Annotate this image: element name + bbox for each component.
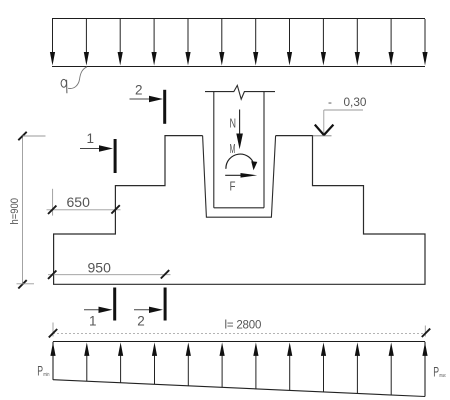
label 950: [88, 259, 112, 275]
dimension h=900 extension top: [23, 135, 46, 137]
section mark 2 top: arrow: [130, 96, 164, 102]
pressure arrow p5: [186, 342, 191, 385]
svg-text:-: -: [328, 95, 332, 109]
load arrow q2: [84, 19, 89, 66]
label N: [230, 116, 237, 131]
distributed load q top line: [52, 18, 425, 20]
svg-text:650: 650: [67, 194, 91, 210]
section mark 2 bottom: label: [137, 314, 145, 329]
svg-text:950: 950: [88, 259, 112, 275]
label M: [230, 141, 236, 156]
label q: [61, 79, 67, 93]
pressure arrow p4: [152, 342, 157, 384]
column bottom edge: [214, 207, 264, 209]
load arrow q10: [355, 19, 360, 66]
label Pmax: [433, 364, 446, 380]
pressure arrow p7: [253, 342, 258, 389]
dimension h=900 line: [18, 132, 26, 289]
column right edge: [263, 92, 265, 208]
soil pressure top line: [53, 341, 425, 343]
column left edge: [213, 92, 215, 208]
svg-text:max: max: [439, 373, 445, 379]
pressure arrow p3: [118, 342, 123, 382]
load arrow q6: [219, 19, 224, 66]
column break line with zigzag: [205, 85, 275, 99]
load arrow q3: [118, 19, 123, 66]
load arrow q8: [287, 19, 292, 66]
load arrow q7: [253, 19, 258, 66]
moment M arc: [226, 154, 257, 170]
elevation mark -0,30 text: [328, 95, 367, 109]
foundation cup pocket walls: [203, 136, 276, 218]
load arrow q5: [185, 19, 190, 66]
section mark 2 top: cut bar: [163, 90, 166, 124]
label h=900: [9, 198, 21, 225]
dimension 650 line: [47, 205, 121, 214]
leader from q to load line: [68, 67, 87, 89]
svg-text:h=900: h=900: [9, 198, 21, 225]
svg-text:P: P: [37, 362, 43, 378]
section mark 1 top: label: [87, 131, 95, 146]
distributed load q baseline: [52, 66, 425, 68]
pressure arrow p1: [50, 342, 55, 379]
svg-text:min: min: [43, 372, 49, 378]
svg-text:1: 1: [87, 131, 95, 146]
section mark 1 bottom: label: [89, 314, 97, 329]
force F arrow: [225, 173, 257, 178]
svg-text:F: F: [230, 179, 236, 194]
svg-text:M: M: [230, 141, 236, 156]
svg-text:0,30: 0,30: [344, 95, 367, 109]
dimension 650 extension line: [52, 189, 54, 216]
dimension 950 line: [48, 270, 171, 279]
dimension l=2800 extension left: [52, 323, 54, 337]
label 650: [67, 194, 91, 210]
label Pmin: [37, 362, 49, 378]
svg-text:1: 1: [89, 314, 97, 329]
pressure arrow p11: [389, 342, 394, 395]
soil pressure left edge: [52, 342, 54, 380]
section mark 2 bottom: arrow: [134, 307, 163, 313]
section mark 1 bottom: cut bar: [113, 288, 116, 321]
svg-text:N: N: [230, 116, 237, 131]
section mark 2 top: label: [135, 83, 143, 98]
section mark 1 top: arrow: [80, 145, 113, 151]
pressure arrow p8: [287, 342, 292, 390]
dimension l=2800 line: [49, 329, 430, 338]
soil pressure right edge: [424, 342, 426, 397]
elevation mark leader: [324, 110, 363, 133]
pressure arrow p6: [220, 342, 225, 387]
label l=2800: [225, 319, 262, 331]
load arrow q1: [50, 19, 55, 66]
svg-text:2: 2: [137, 314, 145, 329]
top surface extension line under mark: [313, 135, 332, 137]
label F: [230, 179, 236, 194]
pressure arrow p10: [355, 342, 360, 393]
section mark 1 top: cut bar: [114, 139, 117, 173]
svg-text:P: P: [433, 364, 439, 380]
dimension h=900 extension bottom: [17, 283, 35, 285]
load arrow q4: [152, 19, 157, 66]
soil pressure sloped bottom line: [53, 380, 425, 397]
svg-text:l= 2800: l= 2800: [225, 319, 262, 331]
pressure arrow p9: [321, 342, 326, 392]
svg-text:2: 2: [135, 83, 143, 98]
force N arrow: [236, 110, 243, 150]
foundation stepped outline: [54, 136, 425, 285]
dimension l=2800 extension right: [424, 326, 426, 337]
load arrow q9: [321, 19, 326, 66]
pressure arrow p2: [84, 342, 89, 381]
load arrow q12: [422, 19, 427, 66]
section mark 1 bottom: arrow: [84, 307, 113, 313]
section mark 2 bottom: cut bar: [164, 288, 167, 321]
load arrow q11: [389, 19, 394, 66]
pressure arrow p12: [422, 342, 427, 396]
elevation mark check symbol: [315, 125, 334, 136]
